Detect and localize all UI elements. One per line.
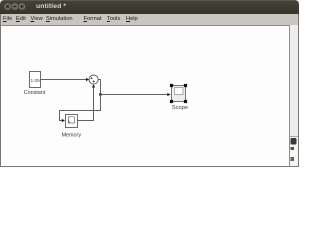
menu bar	[0, 14, 299, 26]
svg-text:Scope: Scope	[172, 105, 188, 111]
title bar	[0, 0, 299, 14]
wire Memory to Sum	[78, 84, 96, 120]
scrollbar	[290, 25, 299, 166]
wire feedback junction to Memory	[60, 95, 101, 123]
canvas bottom border	[0, 166, 299, 168]
canvas left border	[0, 14, 2, 167]
window title	[36, 3, 66, 10]
sum block Sum	[89, 75, 98, 84]
svg-text:Memory: Memory	[62, 133, 82, 139]
canvas	[0, 26, 299, 168]
window button minimize	[12, 4, 18, 10]
window button close	[5, 4, 11, 10]
wire Constant to Sum	[41, 78, 90, 81]
scope block Scope	[172, 86, 186, 102]
constant block Constant	[30, 72, 41, 88]
memory block Memory	[66, 115, 78, 128]
svg-text:Constant: Constant	[24, 90, 46, 96]
svg-text:1.05: 1.05	[31, 78, 41, 84]
window right border	[298, 14, 300, 167]
junction	[99, 93, 102, 96]
selection handles Scope	[170, 84, 187, 103]
window button maximize	[19, 4, 25, 10]
wire Sum output to junction	[98, 80, 100, 95]
wire junction to Scope	[101, 93, 171, 96]
